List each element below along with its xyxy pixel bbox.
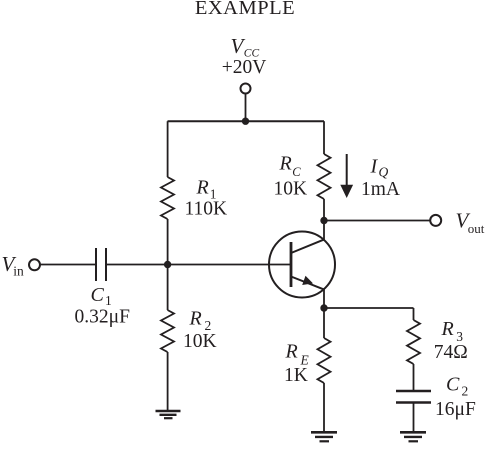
transistor Q1 emitter line	[291, 277, 325, 290]
svg-text:R: R	[196, 176, 209, 198]
wire VCC stub	[245, 94, 247, 122]
arrow IQ	[346, 154, 348, 186]
resistor R2	[161, 310, 174, 352]
svg-text:R: R	[285, 340, 298, 362]
wire Vin to C1	[40, 264, 96, 266]
capacitor C1	[96, 248, 106, 281]
wire down to R3	[413, 308, 415, 320]
wire top rail	[168, 120, 325, 122]
svg-text:1K: 1K	[284, 365, 308, 386]
svg-text:R: R	[441, 318, 454, 340]
terminal Vout	[430, 215, 441, 226]
node VCC junction	[242, 118, 249, 125]
svg-text:74Ω: 74Ω	[434, 342, 468, 363]
wire R1 to node A	[167, 219, 169, 265]
node collector junction	[320, 217, 327, 224]
resistor RC	[318, 154, 331, 199]
wire left branch to R1	[167, 121, 169, 177]
svg-text:110K: 110K	[185, 198, 228, 219]
wire R2 to ground	[167, 352, 169, 411]
svg-text:R: R	[189, 308, 202, 330]
svg-text:0.32μF: 0.32μF	[75, 307, 131, 328]
terminal Vin	[29, 259, 40, 270]
svg-text:C: C	[446, 373, 460, 395]
wire RE to ground	[323, 383, 325, 432]
node A (base/divider junction)	[164, 261, 171, 268]
svg-text:I: I	[370, 155, 379, 177]
node B (emitter junction)	[320, 304, 327, 311]
svg-text:10K: 10K	[183, 331, 217, 352]
resistor R3	[407, 320, 420, 364]
transistor Q1 emitter arrowhead	[302, 276, 313, 285]
svg-text:EXAMPLE: EXAMPLE	[195, 0, 295, 19]
wire C2 to ground	[413, 403, 415, 432]
svg-text:+20V: +20V	[222, 57, 267, 78]
svg-text:out: out	[468, 221, 485, 236]
wire RC to collector	[323, 199, 325, 240]
svg-text:10K: 10K	[274, 178, 308, 199]
svg-text:R: R	[279, 153, 292, 175]
transistor Q1 circle	[269, 232, 335, 298]
capacitor C2	[396, 391, 431, 403]
resistor R1	[161, 177, 174, 219]
wire rail to RC	[323, 121, 325, 154]
wire node B to R3 branch	[324, 307, 414, 309]
transistor Q1 base bar	[290, 242, 293, 287]
wire C1 to base	[106, 264, 291, 266]
svg-text:Q: Q	[379, 165, 389, 180]
svg-text:2: 2	[462, 384, 469, 399]
wire R3 to C2	[413, 364, 415, 391]
svg-text:C: C	[292, 165, 301, 179]
svg-text:1mA: 1mA	[361, 179, 400, 200]
ground (RE)	[311, 432, 337, 441]
terminal VCC	[241, 84, 251, 94]
svg-text:16μF: 16μF	[435, 399, 476, 420]
wire collector node to Vout	[324, 220, 430, 222]
svg-text:C: C	[91, 284, 105, 306]
wire node A to R2	[167, 265, 169, 311]
ground (C2)	[400, 432, 426, 441]
resistor RE	[318, 338, 331, 383]
transistor Q1 collector line	[291, 239, 325, 253]
wire emitter to node B	[323, 290, 325, 339]
ground (R2)	[156, 411, 181, 418]
svg-text:in: in	[13, 263, 24, 278]
